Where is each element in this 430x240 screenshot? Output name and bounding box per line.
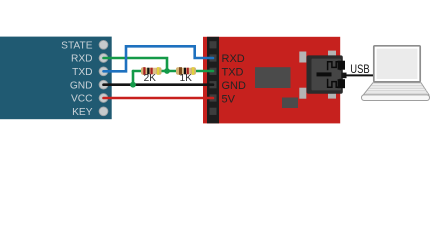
svg-text:1K: 1K bbox=[180, 73, 193, 84]
svg-text:GND: GND bbox=[222, 80, 247, 92]
svg-text:TXD: TXD bbox=[72, 67, 92, 78]
svg-text:KEY: KEY bbox=[72, 107, 93, 118]
svg-text:VCC: VCC bbox=[71, 94, 93, 105]
svg-text:TXD: TXD bbox=[222, 66, 244, 78]
svg-text:5V: 5V bbox=[222, 93, 236, 105]
svg-text:GND: GND bbox=[70, 80, 93, 91]
svg-text:RXD: RXD bbox=[222, 53, 245, 65]
svg-text:2K: 2K bbox=[144, 73, 157, 84]
svg-text:RXD: RXD bbox=[71, 54, 93, 65]
svg-text:USB: USB bbox=[350, 64, 370, 76]
svg-text:STATE: STATE bbox=[61, 40, 93, 51]
